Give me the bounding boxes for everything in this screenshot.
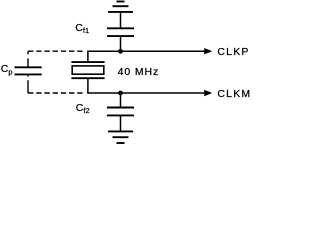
wire bottom rail to Cf2 — [120, 93, 122, 108]
svg-text:CLKP: CLKP — [217, 46, 249, 58]
wire Cf2 to GND2 — [120, 115, 122, 131]
ground GND2 (bottom) — [108, 131, 133, 143]
svg-text:CLKM: CLKM — [217, 88, 251, 100]
wire dashed Cp bottom stem — [27, 74, 29, 93]
node junction bottom (dot) — [118, 91, 123, 96]
crystal Y1 body — [72, 66, 104, 74]
wire GND1 to Cf1 — [120, 12, 122, 28]
node junction top (dot) — [118, 49, 123, 54]
wire crystal top stem — [87, 51, 89, 62]
svg-text:Cp: Cp — [1, 63, 13, 76]
svg-text:40 MHz: 40 MHz — [118, 66, 160, 78]
wire dashed bottom rail (Cp to crystal) — [28, 92, 84, 94]
crystal Y1 top plate — [71, 61, 104, 63]
svg-text:Cf1: Cf1 — [75, 22, 89, 35]
capacitor C_f1 — [107, 28, 134, 36]
svg-text:Cf2: Cf2 — [76, 102, 90, 115]
wire dashed top rail (Cp to crystal) — [28, 50, 84, 52]
output CLKM arrowhead — [204, 90, 212, 96]
capacitor Cp (parasitic) — [15, 67, 42, 74]
ground GND1 (top, inverted) — [108, 2, 133, 12]
wire crystal bottom stem — [87, 78, 89, 93]
capacitor C_f2 — [107, 108, 134, 116]
wire Cf1 to top rail — [120, 36, 122, 51]
output CLKP arrowhead — [204, 48, 212, 54]
wire bottom rail — [87, 92, 205, 94]
wire dashed Cp top stem — [27, 51, 29, 67]
wire top rail — [87, 50, 205, 52]
crystal Y1 bottom plate — [71, 77, 104, 79]
